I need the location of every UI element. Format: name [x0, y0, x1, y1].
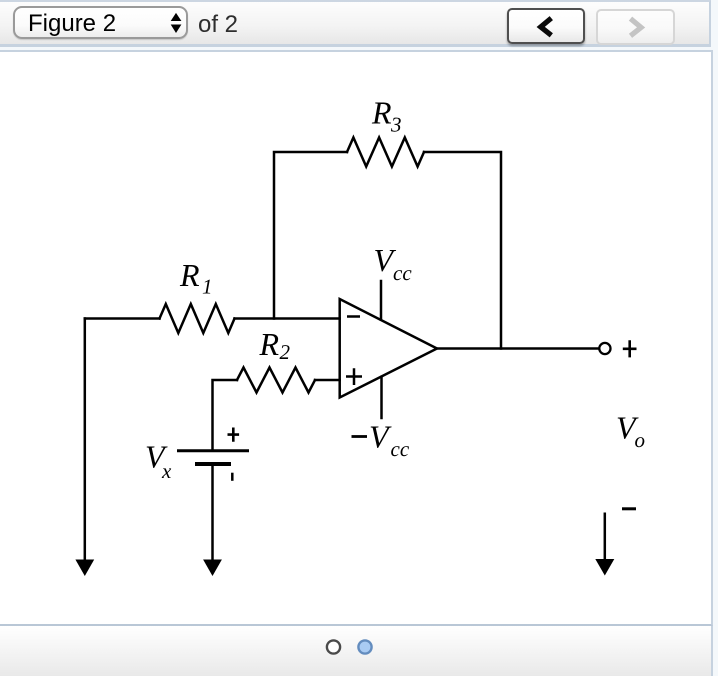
dropdown spinner up arrow	[171, 13, 182, 21]
dropdown spinner down arrow	[171, 25, 182, 34]
output - polarity mark	[622, 507, 636, 510]
wire: left ground leg	[84, 319, 87, 560]
next button	[596, 9, 675, 45]
figure dropdown	[13, 6, 188, 39]
battery - polarity tick	[231, 473, 234, 481]
battery Vx long plate	[177, 449, 249, 452]
page count text	[198, 11, 238, 39]
wire: Vx positive terminal to R2	[213, 380, 238, 450]
ground arrow under Vx	[203, 560, 222, 577]
battery + polarity mark	[228, 428, 240, 442]
Vcc supply stub	[380, 281, 383, 320]
op-amp non-inverting input marker +	[346, 368, 362, 385]
dropdown label text	[28, 10, 116, 38]
prev button	[507, 8, 585, 44]
next button chevron (disabled)	[631, 19, 642, 36]
toolbar	[0, 0, 711, 47]
output + polarity mark	[623, 340, 637, 357]
resistor R3	[347, 138, 424, 167]
prev button chevron	[541, 18, 552, 35]
wire: Vx negative terminal down	[211, 465, 214, 560]
bottom strip	[0, 626, 713, 676]
wire: R2 to op-amp non-inverting input	[315, 379, 340, 382]
output terminal node	[599, 343, 610, 354]
wire: R1 to op-amp inverting input	[235, 317, 340, 320]
carousel dot 2 (active)	[358, 640, 371, 653]
wire: R3 to output node	[424, 152, 501, 349]
battery Vx short plate	[195, 462, 231, 466]
op-amp inverting input marker -	[347, 315, 360, 318]
resistor R2	[237, 368, 315, 393]
wire: op-amp output	[437, 347, 599, 350]
minus sign of -Vcc label	[352, 435, 368, 438]
op-amp U1 triangle	[340, 299, 437, 398]
resistor R1	[160, 304, 235, 333]
wire: R3 feedback loop (left leg, top run, right leg)	[274, 152, 347, 319]
carousel dot 1 (inactive)	[327, 640, 340, 653]
ground arrow left	[75, 560, 94, 577]
wire: input node to R1	[85, 317, 160, 320]
output reference arrow	[595, 513, 614, 576]
-Vcc supply stub	[380, 377, 383, 418]
